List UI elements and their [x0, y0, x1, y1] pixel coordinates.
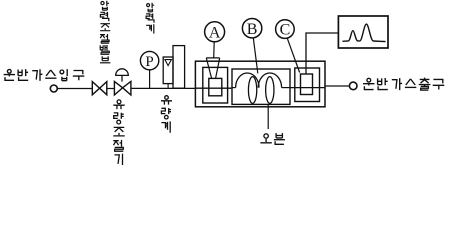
svg-text:A: A [209, 24, 221, 41]
svg-text:B: B [247, 21, 258, 38]
svg-text:P: P [145, 54, 153, 70]
svg-text:C: C [280, 22, 291, 39]
